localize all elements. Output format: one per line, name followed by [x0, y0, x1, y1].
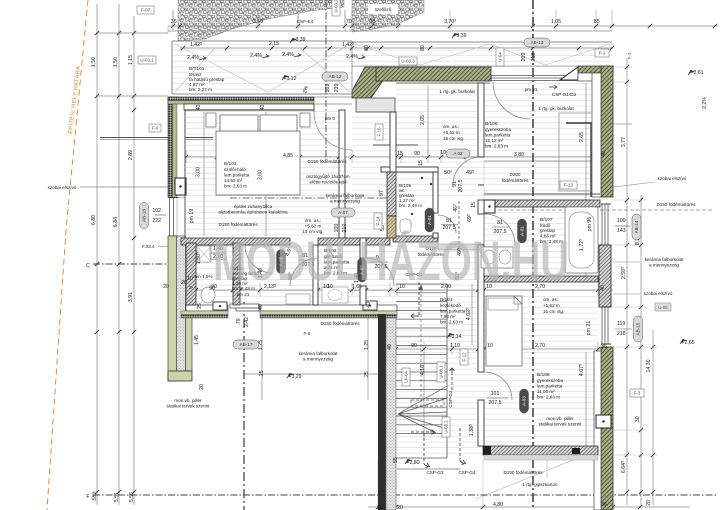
svg-text:20: 20 — [377, 505, 383, 510]
svg-text:bm: 2,63 m: bm: 2,63 m — [537, 395, 560, 400]
floor room B/106 block — [396, 81, 600, 200]
svg-text:F-07: F-07 — [141, 8, 151, 13]
svg-text:F: F — [86, 494, 89, 500]
floor upper terrace strip — [352, 42, 612, 67]
svg-text:a mennyezetig: a mennyezetig — [330, 199, 360, 204]
svg-text:.25: .25 — [364, 371, 370, 378]
wall under-stair strip — [438, 244, 484, 250]
svg-text:osztógyűjtő 15x97cm: osztógyűjtő 15x97cm — [306, 174, 349, 179]
section line F — [86, 494, 718, 500]
svg-text:F-15: F-15 — [377, 127, 382, 137]
door pm0 opening — [314, 97, 352, 104]
svg-text:6,84: 6,84 — [113, 217, 119, 227]
svg-text:mon.vb. pillér: mon.vb. pillér — [174, 398, 202, 403]
svg-text:F-1: F-1 — [599, 51, 606, 56]
svg-text:40: 40 — [387, 344, 393, 350]
wall B/103 left face — [184, 110, 186, 238]
svg-text:5,51: 5,51 — [114, 492, 120, 502]
svg-text:3,60: 3,60 — [253, 19, 263, 25]
svg-text:U-03.3: U-03.3 — [401, 59, 415, 64]
svg-text:1,15: 1,15 — [128, 55, 134, 65]
svg-text:U-08.2: U-08.2 — [444, 420, 449, 434]
svg-text:.30: .30 — [635, 416, 641, 423]
svg-text:1 rtg. gipszkarton: 1 rtg. gipszkarton — [522, 482, 558, 487]
svg-text:D150 födémáttörés: D150 födémáttörés — [307, 159, 347, 164]
section line y=198 — [230, 197, 390, 199]
wall B/102 right lower — [360, 286, 366, 305]
svg-text:2,2%: 2,2% — [702, 97, 708, 109]
svg-text:F-14: F-14 — [376, 216, 381, 226]
svg-text:óm. as.:: óm. as.: — [443, 124, 459, 129]
svg-text:F-12: F-12 — [462, 352, 467, 362]
wall chunk below slant — [356, 98, 395, 112]
door arc A-02 — [453, 157, 484, 185]
svg-text:D150 födémáttörés: D150 födémáttörés — [218, 222, 258, 227]
section line x=326 — [325, 0, 327, 160]
window AB-15 — [601, 307, 611, 344]
floor room B/108 — [484, 282, 598, 446]
wall right exterior upper — [592, 66, 613, 197]
svg-text:222: 222 — [152, 218, 161, 224]
svg-text:statikai tervek szerint: statikai tervek szerint — [167, 404, 211, 409]
svg-text:AB-12: AB-12 — [329, 74, 342, 79]
wall midblock bottom east — [260, 305, 397, 318]
svg-text:épület zuhanytálca: épület zuhanytálca — [234, 204, 273, 209]
svg-text:1 rtg. gk. burkolat: 1 rtg. gk. burkolat — [439, 89, 475, 94]
svg-text:F-3: F-3 — [634, 391, 641, 396]
svg-text:209: 209 — [521, 53, 527, 62]
terrace slope lines — [175, 44, 610, 92]
svg-text:AB-18: AB-18 — [142, 209, 147, 222]
svg-text:CSP-D1-D2: CSP-D1-D2 — [552, 92, 577, 97]
svg-text:U-03.2: U-03.2 — [334, 0, 339, 13]
svg-text:szellőző: szellőző — [375, 7, 392, 12]
shower B/104 — [197, 246, 211, 262]
svg-text:2,05: 2,05 — [420, 115, 426, 125]
svg-text:közlekedő: közlekedő — [440, 303, 461, 308]
wall corridor east mid — [478, 245, 484, 372]
svg-text:kerámia falburkolat: kerámia falburkolat — [645, 257, 685, 262]
svg-text:D150 födémáttörés: D150 födémáttörés — [320, 321, 360, 326]
column mon.vb. left — [175, 178, 186, 195]
svg-text:bm: 2,27 m: bm: 2,27 m — [189, 87, 212, 92]
svg-text:14,30: 14,30 — [646, 359, 652, 372]
svg-text:40: 40 — [601, 151, 607, 157]
door arc B/102 — [290, 258, 318, 286]
svg-text:A 02: A 02 — [453, 151, 463, 156]
svg-text:szobai elszívó: szobai elszívó — [644, 291, 673, 296]
window AB-14 — [601, 204, 611, 245]
site boundary label — [67, 65, 82, 134]
svg-text:15 cm vtg.: 15 cm vtg. — [543, 309, 564, 314]
svg-text:3¹: 3¹ — [189, 285, 194, 290]
svg-text:pm 21: pm 21 — [525, 87, 538, 92]
svg-text:1,10: 1,10 — [450, 343, 460, 349]
svg-text:40: 40 — [600, 285, 606, 291]
floor corridor B/101 — [396, 242, 484, 455]
svg-text:90: 90 — [411, 343, 417, 349]
svg-text:pm 96: pm 96 — [587, 217, 593, 232]
svg-text:2,89: 2,89 — [128, 150, 134, 160]
svg-text:kerámia falburkolat: kerámia falburkolat — [326, 193, 366, 198]
svg-text:1,45: 1,45 — [194, 335, 200, 345]
svg-text:gyerekszoba: gyerekszoba — [537, 378, 563, 383]
svg-text:10: 10 — [187, 276, 193, 282]
svg-text:LK-04: LK-04 — [404, 371, 409, 383]
floor room B/103 — [186, 110, 339, 238]
markers — [137, 0, 671, 437]
svg-text:207,5: 207,5 — [489, 400, 502, 406]
svg-text:.85: .85 — [592, 19, 599, 25]
svg-text:U-05: U-05 — [658, 305, 668, 310]
svg-text:bm: 2,63 m: bm: 2,63 m — [440, 320, 463, 325]
pillar stair stipple — [386, 318, 396, 510]
wall left exterior lower — [168, 236, 186, 381]
svg-text:2,4%: 2,4% — [187, 55, 199, 61]
wall B/103 right — [339, 110, 345, 238]
site boundary orange — [47, 0, 88, 510]
svg-text:2,42: 2,42 — [244, 317, 250, 327]
svg-text:pm 21: pm 21 — [237, 292, 250, 297]
wall B/105 top — [381, 167, 438, 172]
svg-text:80: 80 — [364, 45, 370, 51]
svg-text:óm. as.:: óm. as.: — [305, 218, 321, 223]
svg-text:MODULHÁZON.HU: MODULHÁZON.HU — [213, 229, 569, 292]
svg-text:143: 143 — [617, 228, 626, 234]
svg-text:F-6: F-6 — [304, 331, 311, 336]
svg-text:AB-14: AB-14 — [634, 220, 639, 233]
svg-text:U-08.1: U-08.1 — [439, 365, 444, 379]
svg-text:A-03: A-03 — [522, 396, 527, 406]
svg-text:3,91: 3,91 — [128, 292, 134, 302]
wall B/108 bottom — [483, 446, 598, 460]
bed B/103 — [206, 113, 310, 195]
svg-text:C: C — [86, 263, 90, 269]
wall corridor west vestibule — [478, 83, 484, 157]
washbasin B/102 — [322, 287, 348, 303]
svg-text:102: 102 — [152, 208, 161, 214]
svg-text:40: 40 — [196, 105, 202, 111]
wall left inner leaf lower — [186, 305, 193, 371]
svg-text:218: 218 — [617, 331, 626, 337]
svg-text:F-6: F-6 — [152, 126, 159, 131]
svg-text:20: 20 — [181, 280, 187, 286]
wall pier right — [599, 245, 611, 307]
svg-text:40: 40 — [366, 302, 372, 308]
svg-text:20: 20 — [646, 500, 652, 506]
svg-text:a mennyezetig: a mennyezetig — [649, 263, 679, 268]
svg-text:1 rtg. gk. burkolat: 1 rtg. gk. burkolat — [538, 106, 574, 111]
svg-text:D150 födémáttörés: D150 födémáttörés — [503, 470, 543, 475]
wall B/105 right lower — [433, 233, 438, 238]
wall top B/103 inner leaf — [184, 104, 314, 110]
floor mid block — [186, 245, 478, 305]
sink B/104 — [201, 287, 215, 303]
section line C — [86, 263, 168, 269]
box detail right — [363, 301, 377, 310]
wall B/104 left — [186, 243, 196, 305]
svg-text:.55³: .55³ — [92, 492, 98, 501]
svg-text:A-07: A-07 — [338, 210, 348, 215]
window AB-18 left wall — [169, 198, 178, 237]
door arc B/102 east — [366, 258, 394, 286]
wall left bottom cap — [168, 371, 192, 381]
svg-text:7,96 m²: 7,96 m² — [440, 314, 456, 319]
svg-text:bm: 2,48 m: bm: 2,48 m — [399, 203, 422, 208]
svg-text:AB-13: AB-13 — [531, 40, 544, 45]
svg-text:pm 0: pm 0 — [325, 116, 336, 121]
wall top B/106 — [376, 67, 491, 81]
svg-text:207,5: 207,5 — [458, 179, 464, 192]
svg-text:.79: .79 — [236, 318, 242, 325]
wall slanted segment — [352, 67, 382, 98]
svg-text:F-1: F-1 — [627, 52, 632, 59]
bed B/108 — [486, 296, 522, 366]
wall spine B105 — [393, 236, 438, 242]
svg-text:CSF-E4: CSF-E4 — [297, 19, 314, 24]
terasz outline — [172, 41, 612, 94]
wall right exterior lower — [594, 347, 613, 510]
door arc AB-13 leaf — [493, 82, 530, 119]
svg-text:4,85: 4,85 — [283, 153, 293, 159]
svg-text:pm 19: pm 19 — [189, 209, 195, 224]
svg-text:90: 90 — [414, 151, 420, 157]
svg-text:3,00: 3,00 — [196, 167, 202, 177]
gravel bed top-left — [178, 0, 344, 41]
svg-text:A-01: A-01 — [427, 215, 432, 225]
svg-text:1,25: 1,25 — [364, 340, 370, 350]
wc B/105 — [400, 219, 411, 233]
svg-text:lam.parketta: lam.parketta — [537, 384, 563, 389]
svg-text:.25: .25 — [259, 370, 265, 377]
svg-text:D150 födémáttörés: D150 födémáttörés — [656, 202, 696, 207]
gravel bed top-right — [352, 0, 424, 32]
watermark — [213, 229, 569, 292]
svg-text:AB-17: AB-17 — [240, 342, 253, 347]
svg-text:lam.parketta: lam.parketta — [440, 309, 466, 314]
wall furring line — [590, 123, 592, 197]
svg-text:109: 109 — [325, 84, 331, 93]
door sliding terrace — [230, 304, 259, 311]
svg-text:119: 119 — [617, 321, 625, 327]
svg-text:+5,62 m: +5,62 m — [443, 130, 460, 135]
door arc B/104 — [245, 245, 273, 273]
svg-text:3,80: 3,80 — [514, 152, 524, 158]
floor room B/107 — [484, 207, 598, 277]
svg-text:1,50: 1,50 — [113, 57, 119, 67]
svg-text:F-13: F-13 — [564, 183, 574, 188]
wall top right segment — [578, 66, 613, 81]
svg-text:bm: 2,63 m: bm: 2,63 m — [224, 184, 247, 189]
washbasin B/107 — [481, 247, 513, 268]
wall void right — [390, 112, 396, 172]
shaft chimney — [387, 172, 396, 238]
svg-text:szülői háló: szülői háló — [224, 167, 246, 172]
svg-text:min 1,5%: min 1,5% — [193, 274, 212, 279]
svg-text:3,00: 3,00 — [258, 170, 264, 180]
svg-text:2,4%: 2,4% — [282, 52, 294, 58]
svg-text:40: 40 — [260, 105, 266, 111]
box detail left — [213, 302, 227, 310]
svg-text:11,00 m²: 11,00 m² — [537, 389, 555, 394]
svg-text:101: 101 — [491, 391, 500, 397]
door arc B/103 pm0 — [314, 104, 352, 150]
wall B/106 bottom — [484, 200, 600, 213]
section line x=244 — [243, 302, 245, 510]
svg-text:15: 15 — [418, 160, 424, 166]
svg-text:2,4%: 2,4% — [250, 53, 262, 59]
svg-text:szobai elszívó: szobai elszívó — [658, 176, 687, 181]
bathtub B/107 — [565, 207, 598, 273]
svg-text:10: 10 — [487, 343, 493, 349]
svg-text:80: 80 — [420, 45, 426, 51]
wall B/102 right upper — [360, 238, 366, 258]
column mon.vb. right — [596, 415, 611, 428]
wall corridor east lower — [478, 400, 484, 446]
svg-text:36: 36 — [601, 344, 607, 350]
svg-text:.70: .70 — [344, 19, 351, 25]
svg-text:kerámia falburkolat: kerámia falburkolat — [299, 351, 339, 356]
wall top B/103 outer — [168, 97, 314, 104]
svg-text:46³: 46³ — [453, 204, 459, 212]
svg-text:lam.parketta: lam.parketta — [224, 173, 250, 178]
svg-text:50³: 50³ — [444, 170, 452, 176]
wall B/102 left — [313, 245, 318, 305]
svg-text:15 cm vtg.: 15 cm vtg. — [443, 136, 464, 141]
wall spine west — [181, 238, 290, 245]
wardrobe B/106 — [559, 113, 592, 191]
svg-text:81: 81 — [446, 218, 452, 224]
svg-text:D200: D200 — [510, 172, 521, 177]
gk cladding line B/106 — [396, 82, 490, 84]
svg-text:15: 15 — [471, 202, 477, 208]
svg-text:14,55 m²: 14,55 m² — [224, 178, 243, 183]
svg-text:4,10: 4,10 — [420, 365, 426, 375]
svg-text:3,70³: 3,70³ — [444, 19, 456, 25]
svg-text:20: 20 — [199, 384, 205, 390]
svg-text:2,15: 2,15 — [269, 41, 279, 47]
wall stair west dark — [378, 314, 386, 510]
wall B/107 bottom — [484, 276, 598, 282]
furring line B/106 bottom — [484, 193, 600, 195]
svg-text:55: 55 — [393, 457, 399, 463]
svg-text:2,70: 2,70 — [535, 343, 545, 349]
section line x=533 — [532, 0, 534, 510]
wall B/104 right — [233, 243, 240, 305]
svg-text:statikai tervek szerint: statikai tervek szerint — [539, 422, 583, 427]
svg-text:CSP-G4: CSP-G4 — [458, 470, 476, 475]
staircase — [396, 284, 460, 469]
wall left exterior upper — [168, 97, 185, 198]
door arc B/108 101 — [484, 372, 512, 400]
svg-text:20: 20 — [397, 505, 403, 510]
svg-text:36: 36 — [601, 502, 607, 508]
svg-text:20: 20 — [163, 284, 169, 290]
floor void corridor — [352, 112, 396, 238]
svg-text:2,65: 2,65 — [579, 132, 585, 142]
svg-text:10: 10 — [440, 150, 446, 156]
svg-text:12,12 m²: 12,12 m² — [485, 138, 504, 143]
wall spine mid — [318, 238, 390, 245]
wall B/105 right upper — [433, 172, 438, 213]
window AB-13 top wall — [491, 75, 579, 81]
svg-text:CSP-G2: CSP-G2 — [448, 390, 453, 408]
svg-text:födémáttörés: födémáttörés — [502, 178, 530, 183]
svg-text:.35: .35 — [169, 19, 176, 25]
door arc B/107 — [484, 214, 515, 245]
door arc A-01 B/105 — [438, 215, 456, 233]
cabinet B/102 area — [286, 294, 310, 304]
svg-text:6,80: 6,80 — [91, 215, 97, 225]
svg-text:pm 21: pm 21 — [586, 321, 592, 336]
svg-text:109: 109 — [617, 218, 626, 224]
svg-text:239: 239 — [334, 84, 340, 93]
svg-text:aljzatbetonba építésben kialak: aljzatbetonba építésben kialakítva — [218, 210, 288, 215]
svg-text:U-04: U-04 — [498, 52, 503, 62]
svg-text:1,50: 1,50 — [91, 57, 97, 67]
svg-text:előtte revíziós ajtó: előtte revíziós ajtó — [309, 180, 346, 185]
wall notch triangle — [560, 67, 578, 80]
svg-text:gyerekszoba: gyerekszoba — [485, 127, 511, 132]
svg-text:15: 15 — [397, 151, 403, 157]
svg-text:mon.vb. pillér: mon.vb. pillér — [546, 416, 574, 421]
svg-text:bm: 2,63 m: bm: 2,63 m — [485, 144, 508, 149]
svg-text:40: 40 — [258, 304, 264, 310]
wall midblock bottom west — [181, 305, 228, 318]
csp ducts — [411, 201, 466, 468]
svg-text:3,77: 3,77 — [621, 137, 627, 147]
svg-text:szobai elszívó: szobai elszívó — [48, 185, 77, 190]
svg-text:81: 81 — [497, 220, 503, 226]
svg-text:U-03.1: U-03.1 — [140, 58, 154, 63]
svg-text:.35: .35 — [368, 19, 375, 25]
svg-text:25: 25 — [197, 303, 203, 309]
wall corridor east upper — [478, 200, 484, 214]
svg-text:97: 97 — [379, 190, 385, 196]
svg-text:óm. as.:: óm. as.: — [543, 297, 559, 302]
svg-text:F.03.4: F.03.4 — [142, 244, 155, 249]
svg-text:+5,62 m: +5,62 m — [543, 303, 560, 308]
svg-text:a mennyezetig: a mennyezetig — [303, 357, 333, 362]
svg-text:+5,62 m: +5,62 m — [305, 224, 322, 229]
floor terasz B/T101 — [172, 42, 352, 94]
svg-text:218: 218 — [531, 53, 537, 62]
svg-text:5,55: 5,55 — [129, 492, 135, 502]
svg-text:AB-15: AB-15 — [636, 322, 641, 335]
svg-text:4,80: 4,80 — [493, 502, 503, 508]
svg-text:1,05: 1,05 — [551, 19, 561, 25]
svg-text:lam.parketta: lam.parketta — [485, 133, 511, 138]
svg-text:2,4%: 2,4% — [346, 54, 358, 60]
svg-text:CSP-G3: CSP-G3 — [426, 470, 444, 475]
